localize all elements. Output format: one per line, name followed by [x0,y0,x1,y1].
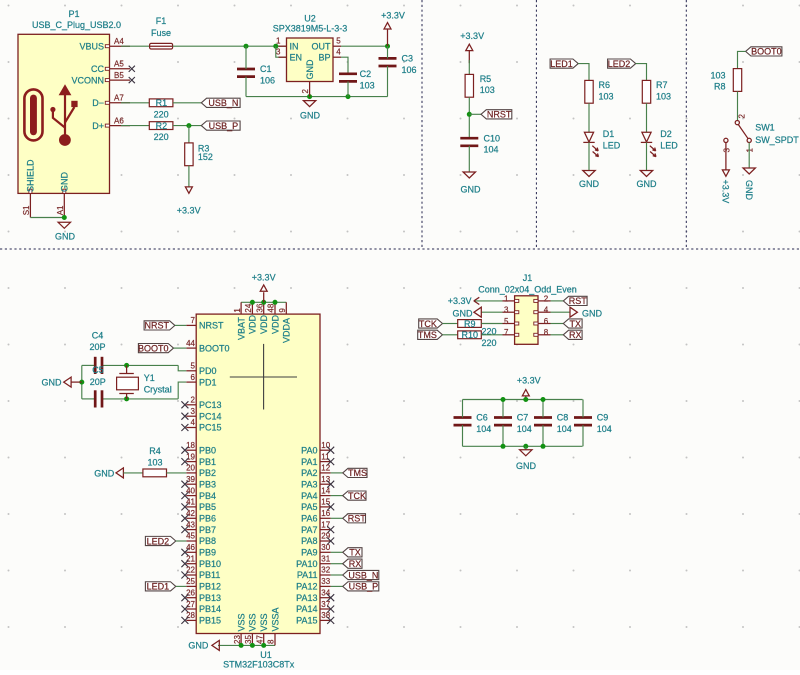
svg-text:TMS: TMS [348,468,367,478]
svg-text:6: 6 [191,373,196,382]
svg-text:NRST: NRST [145,321,170,331]
svg-text:28: 28 [186,611,195,620]
svg-text:106: 106 [260,76,275,86]
svg-text:+3.3V: +3.3V [381,11,405,21]
svg-text:NRST: NRST [487,110,512,120]
svg-text:GND: GND [55,232,76,242]
svg-text:8: 8 [267,639,276,644]
svg-text:OUT: OUT [312,41,332,51]
svg-text:USB_N: USB_N [208,98,238,108]
svg-text:27: 27 [186,600,195,609]
svg-text:PB7: PB7 [199,525,216,535]
svg-text:TMS: TMS [418,330,437,340]
svg-text:P1: P1 [68,9,79,19]
svg-text:B5: B5 [114,71,124,80]
svg-text:A7: A7 [114,94,124,103]
svg-text:PB5: PB5 [199,502,216,512]
svg-text:PA4: PA4 [301,491,317,501]
svg-text:SW1: SW1 [755,123,775,133]
svg-text:LED1: LED1 [550,59,573,69]
svg-text:6: 6 [544,317,549,326]
svg-text:R1: R1 [156,98,168,108]
svg-text:1: 1 [276,37,281,46]
svg-text:S1: S1 [22,205,31,215]
svg-text:41: 41 [186,498,195,507]
svg-text:F1: F1 [156,16,167,26]
svg-text:PA7: PA7 [301,525,317,535]
svg-text:44: 44 [186,339,195,348]
svg-text:PB10: PB10 [199,559,221,569]
svg-text:VDDA: VDDA [282,318,292,343]
svg-text:+3.3V: +3.3V [517,375,541,385]
svg-text:152: 152 [198,152,213,162]
svg-text:LED2: LED2 [147,536,170,546]
svg-text:U2: U2 [304,14,316,24]
svg-text:5: 5 [336,37,341,46]
svg-text:2: 2 [191,396,196,405]
svg-text:R9: R9 [464,319,476,329]
svg-text:46: 46 [186,543,195,552]
svg-text:J1: J1 [523,273,533,283]
svg-text:1: 1 [746,148,755,153]
svg-text:2: 2 [301,89,310,94]
svg-text:GND: GND [188,641,209,651]
svg-text:32: 32 [321,566,330,575]
svg-text:PA2: PA2 [301,468,317,478]
svg-text:104: 104 [557,424,572,434]
svg-text:R2: R2 [156,121,168,131]
svg-text:D1: D1 [603,129,615,139]
svg-text:39: 39 [186,475,195,484]
svg-text:TCK: TCK [348,491,366,501]
svg-text:30: 30 [321,543,330,552]
svg-text:8: 8 [544,328,549,337]
svg-text:42: 42 [186,509,195,518]
svg-text:VSS: VSS [236,613,246,631]
svg-text:47: 47 [255,635,264,644]
svg-text:C9: C9 [597,413,609,423]
svg-text:R7: R7 [656,80,668,90]
svg-text:3: 3 [191,407,196,416]
svg-text:LED: LED [660,141,678,151]
svg-text:23: 23 [233,635,242,644]
svg-text:D−: D− [92,98,104,108]
svg-text:PA9: PA9 [301,548,317,558]
svg-text:104: 104 [476,424,491,434]
svg-text:Y1: Y1 [144,373,155,383]
svg-text:PB14: PB14 [199,604,221,614]
svg-text:43: 43 [186,520,195,529]
svg-text:+3.3V: +3.3V [721,180,731,204]
svg-text:RX: RX [569,330,582,340]
svg-text:220: 220 [154,132,169,142]
svg-text:GND: GND [744,180,754,201]
svg-text:VSS: VSS [259,613,269,631]
svg-text:106: 106 [402,65,417,75]
svg-text:19: 19 [186,452,195,461]
svg-text:3: 3 [504,306,509,315]
svg-text:20P: 20P [89,342,105,352]
svg-text:103: 103 [656,92,671,102]
svg-text:PA6: PA6 [301,514,317,524]
svg-text:BP: BP [318,52,330,62]
svg-text:Conn_02x04_Odd_Even: Conn_02x04_Odd_Even [478,284,577,294]
svg-text:7: 7 [504,328,509,337]
svg-text:USB_C_Plug_USB2.0: USB_C_Plug_USB2.0 [32,20,121,30]
svg-text:USB_P: USB_P [209,121,239,131]
svg-text:C7: C7 [517,413,529,423]
svg-text:RST: RST [348,514,367,524]
svg-text:PD1: PD1 [199,377,217,387]
svg-text:VBUS: VBUS [79,41,104,51]
svg-text:104: 104 [517,424,532,434]
svg-text:PB12: PB12 [199,582,221,592]
svg-text:PA13: PA13 [296,593,317,603]
svg-text:VDD: VDD [248,314,258,334]
svg-text:PB4: PB4 [199,491,216,501]
svg-text:R10: R10 [462,330,479,340]
svg-text:VCONN: VCONN [71,75,104,85]
svg-text:PB8: PB8 [199,536,216,546]
svg-text:Fuse: Fuse [151,28,171,38]
svg-text:GND: GND [305,59,315,80]
svg-text:C6: C6 [476,413,488,423]
svg-text:16: 16 [321,509,330,518]
svg-text:GND: GND [579,179,600,189]
svg-text:C3: C3 [402,54,414,64]
svg-text:4: 4 [336,48,341,57]
svg-text:GND: GND [60,172,70,193]
svg-text:103: 103 [147,458,162,468]
svg-text:35: 35 [244,635,253,644]
svg-text:VBAT: VBAT [236,317,246,340]
svg-text:103: 103 [599,92,614,102]
svg-text:103: 103 [480,85,495,95]
svg-text:PB3: PB3 [199,479,216,489]
svg-text:D+: D+ [92,121,104,131]
svg-text:PA14: PA14 [296,604,317,614]
svg-text:14: 14 [321,486,330,495]
svg-text:4: 4 [191,418,196,427]
svg-text:2: 2 [738,114,747,119]
svg-text:31: 31 [321,554,330,563]
svg-text:SPX3819M5-L-3-3: SPX3819M5-L-3-3 [273,24,348,34]
svg-text:1: 1 [504,294,509,303]
svg-text:PB1: PB1 [199,457,216,467]
svg-text:RX: RX [349,559,362,569]
svg-text:21: 21 [186,554,195,563]
svg-text:PC13: PC13 [199,400,222,410]
svg-text:EN: EN [290,52,303,62]
svg-text:PD0: PD0 [199,366,217,376]
svg-text:VDD: VDD [259,314,269,334]
svg-text:CC: CC [91,64,104,74]
svg-text:BOOT0: BOOT0 [199,343,230,353]
svg-text:STM32F103C8Tx: STM32F103C8Tx [223,660,295,670]
svg-text:D2: D2 [660,129,672,139]
svg-text:GND: GND [516,461,537,471]
svg-text:+3.3V: +3.3V [448,296,472,306]
svg-text:22: 22 [186,566,195,575]
svg-text:25: 25 [186,577,195,586]
svg-text:+3.3V: +3.3V [252,273,276,283]
svg-text:C5: C5 [92,365,104,375]
svg-text:RST: RST [569,296,588,306]
svg-text:TX: TX [349,548,361,558]
svg-text:LED1: LED1 [147,582,170,592]
svg-text:USB_N: USB_N [348,570,378,580]
svg-text:C8: C8 [557,413,569,423]
svg-text:GND: GND [461,185,482,195]
svg-text:+3.3V: +3.3V [177,206,201,216]
svg-text:PA11: PA11 [297,570,318,580]
svg-text:BOOT0: BOOT0 [751,47,782,57]
svg-text:PB11: PB11 [199,570,220,580]
svg-text:PA10: PA10 [296,559,317,569]
svg-text:U1: U1 [260,650,272,660]
svg-text:220: 220 [482,338,497,348]
svg-text:C1: C1 [260,64,272,74]
svg-text:3: 3 [276,48,281,57]
svg-text:PC14: PC14 [199,411,222,421]
svg-text:LED: LED [603,141,621,151]
svg-text:C4: C4 [92,331,104,341]
svg-text:A6: A6 [114,116,124,125]
svg-text:3: 3 [722,148,731,153]
svg-text:A4: A4 [114,37,124,46]
svg-text:GND: GND [637,179,658,189]
svg-text:4: 4 [544,306,549,315]
svg-text:104: 104 [484,145,499,155]
svg-text:7: 7 [191,316,196,325]
svg-text:C2: C2 [360,69,372,79]
svg-text:26: 26 [186,588,195,597]
svg-text:GND: GND [300,111,321,121]
svg-text:PC15: PC15 [199,423,222,433]
svg-text:PA0: PA0 [301,445,317,455]
svg-text:18: 18 [186,441,195,450]
svg-text:LED2: LED2 [608,59,631,69]
svg-text:VSSA: VSSA [270,607,280,631]
svg-text:2: 2 [544,294,549,303]
svg-text:PA5: PA5 [301,502,317,512]
svg-text:GND: GND [42,377,63,387]
svg-text:A5: A5 [114,60,124,69]
svg-text:220: 220 [154,109,169,119]
svg-text:R5: R5 [480,74,492,84]
svg-text:103: 103 [360,80,375,90]
svg-text:9: 9 [278,308,287,313]
svg-text:R4: R4 [149,446,161,456]
svg-text:GND: GND [582,308,603,318]
svg-text:33: 33 [321,577,330,586]
svg-text:SW_SPDT: SW_SPDT [755,135,799,145]
svg-text:103: 103 [710,71,725,81]
svg-text:SHIELD: SHIELD [26,159,36,192]
svg-text:NRST: NRST [199,321,224,331]
svg-text:1: 1 [233,308,242,313]
svg-text:5: 5 [504,317,509,326]
svg-text:C10: C10 [484,133,501,143]
svg-text:PA3: PA3 [301,479,317,489]
svg-text:PA8: PA8 [301,536,317,546]
svg-text:40: 40 [186,486,195,495]
svg-text:R8: R8 [714,82,726,92]
svg-text:VDD: VDD [270,314,280,334]
svg-text:BOOT0: BOOT0 [138,343,169,353]
svg-text:TCK: TCK [419,319,437,329]
svg-text:IN: IN [290,41,299,51]
svg-text:PA1: PA1 [301,457,317,467]
svg-text:PA12: PA12 [296,582,317,592]
svg-text:5: 5 [191,362,196,371]
svg-text:VSS: VSS [248,613,258,631]
svg-text:PB2: PB2 [199,468,216,478]
svg-text:A1: A1 [56,205,65,215]
svg-text:45: 45 [186,532,195,541]
svg-text:Crystal: Crystal [144,384,172,394]
svg-text:+3.3V: +3.3V [460,31,484,41]
svg-text:PA15: PA15 [296,616,317,626]
svg-text:PB15: PB15 [199,616,221,626]
svg-text:12: 12 [321,464,330,473]
svg-text:PB6: PB6 [199,514,216,524]
svg-text:20P: 20P [90,377,106,387]
svg-text:PB13: PB13 [199,593,221,603]
svg-text:GND: GND [453,308,474,318]
svg-text:USB_P: USB_P [349,582,379,592]
svg-text:104: 104 [597,424,612,434]
svg-text:PB0: PB0 [199,445,216,455]
svg-text:R6: R6 [599,80,611,90]
svg-text:PB9: PB9 [199,548,216,558]
svg-text:20: 20 [186,464,195,473]
svg-text:TX: TX [570,319,582,329]
svg-text:GND: GND [94,469,115,479]
